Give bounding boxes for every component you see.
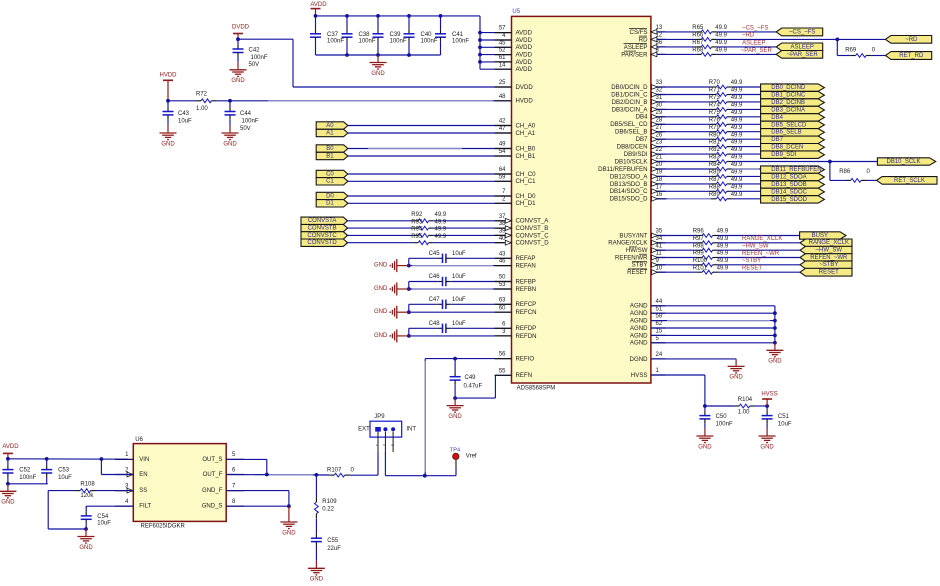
svg-text:EXT: EXT — [358, 426, 370, 432]
net label REFEN_~WR — [742, 251, 780, 257]
port flag CONVSTA — [301, 217, 348, 224]
svg-text:D1: D1 — [326, 201, 334, 207]
svg-text:AGND: AGND — [630, 340, 648, 347]
node DB10 junction — [828, 160, 832, 164]
svg-text:49.9: 49.9 — [731, 147, 743, 153]
svg-text:CH_C0: CH_C0 — [516, 171, 537, 178]
svg-text:C51: C51 — [778, 414, 790, 420]
svg-text:31: 31 — [656, 95, 663, 101]
svg-text:CONVST_D: CONVST_D — [516, 240, 550, 247]
svg-text:C53: C53 — [58, 468, 70, 474]
svg-text:AGND: AGND — [630, 303, 648, 310]
svg-text:CH_C1: CH_C1 — [516, 178, 537, 185]
resistor R65 49.9 — [651, 25, 728, 34]
wire AGND bus — [651, 306, 777, 345]
wire HVDD to U5 pin 48 — [216, 100, 511, 102]
svg-text:CH_A0: CH_A0 — [516, 122, 536, 129]
svg-text:62: 62 — [656, 321, 663, 327]
svg-text:R85: R85 — [709, 170, 721, 176]
wire B0 light segment — [368, 148, 462, 150]
svg-text:50V: 50V — [240, 126, 251, 132]
svg-text:20: 20 — [656, 162, 663, 168]
svg-text:DB9_SDI: DB9_SDI — [771, 152, 796, 158]
wire DVDD to U5 pin 25 — [238, 39, 512, 87]
svg-text:ASLEEP: ASLEEP — [624, 44, 648, 51]
svg-text:R97: R97 — [693, 236, 705, 242]
svg-text:DB8_DCEN: DB8_DCEN — [771, 145, 803, 151]
svg-text:C41: C41 — [452, 32, 464, 38]
svg-text:CONVSTC: CONVSTC — [307, 233, 337, 239]
wire to RESET flag — [718, 271, 801, 273]
svg-text:DB0_DCIND: DB0_DCIND — [771, 85, 806, 91]
svg-text:~CS_~FS: ~CS_~FS — [742, 25, 768, 31]
svg-text:10uF: 10uF — [452, 274, 466, 280]
wire C52-C53 bottom rail — [6, 482, 48, 486]
resistor R96 49.9 — [651, 229, 729, 238]
svg-text:DB10/SCLK: DB10/SCLK — [615, 158, 648, 165]
svg-text:R107: R107 — [327, 467, 342, 473]
svg-text:DB15_SDOD: DB15_SDOD — [771, 197, 807, 203]
svg-text:REFAN: REFAN — [516, 263, 536, 270]
net label ~RD — [742, 33, 755, 39]
svg-text:DB4: DB4 — [636, 114, 648, 121]
svg-text:HVDD: HVDD — [159, 73, 177, 79]
wire CONVSTA to U5 — [434, 220, 512, 222]
wire R86 to RET_SCLK flag — [866, 179, 877, 181]
ground GND (C51) — [759, 429, 776, 451]
wire to BUSY flag — [718, 235, 800, 237]
capacitor C47 10uF — [409, 297, 512, 309]
svg-text:63: 63 — [499, 297, 506, 303]
svg-text:C37: C37 — [327, 32, 339, 38]
svg-text:C48: C48 — [429, 321, 441, 327]
wire REF pair C47 — [407, 304, 512, 314]
svg-text:52: 52 — [499, 48, 506, 54]
wire HVDD light segment — [268, 100, 493, 102]
svg-text:U6: U6 — [135, 437, 143, 443]
resistor R70 49.9 — [651, 80, 743, 89]
svg-text:R79: R79 — [709, 125, 721, 131]
svg-text:AGND: AGND — [630, 325, 648, 332]
wire to DB14_SDOC flag — [732, 190, 761, 192]
svg-text:AVDD: AVDD — [516, 44, 533, 51]
U5 left pin numbers — [499, 26, 506, 375]
port flag B0 — [316, 145, 348, 152]
svg-text:26: 26 — [656, 132, 663, 138]
svg-text:DB14_SDOC: DB14_SDOC — [771, 189, 807, 195]
resistor R73 49.9 — [651, 95, 743, 104]
svg-text:AVDD: AVDD — [516, 59, 533, 66]
wire to DB5_SELCD flag — [732, 123, 761, 125]
U5 CONVST input arrows — [505, 218, 511, 245]
ground GND (REF C46) — [374, 283, 409, 296]
svg-text:BUSY/INT: BUSY/INT — [619, 232, 647, 239]
svg-text:100nF: 100nF — [390, 39, 407, 45]
svg-text:AVDD: AVDD — [516, 66, 533, 73]
resistor R101 49.9 — [651, 265, 729, 274]
svg-text:A0: A0 — [326, 123, 334, 129]
svg-text:AVDD: AVDD — [516, 52, 533, 59]
port flag D0 — [316, 192, 348, 199]
U5 left pin names — [516, 30, 550, 380]
svg-text:~RD: ~RD — [742, 33, 755, 39]
svg-text:CH_A1: CH_A1 — [516, 130, 536, 137]
svg-text:17: 17 — [656, 184, 663, 190]
capacitor C48 10uF — [409, 321, 512, 333]
svg-text:REFBN: REFBN — [516, 286, 537, 293]
svg-text:DB2/DCIN_B: DB2/DCIN_B — [612, 99, 648, 106]
svg-text:C46: C46 — [429, 274, 441, 280]
wire OUT_F to R107 — [226, 473, 329, 477]
svg-text:GND_F: GND_F — [202, 488, 223, 494]
svg-text:R70: R70 — [709, 80, 721, 86]
svg-text:RD: RD — [639, 36, 648, 43]
port flag C1 — [316, 178, 348, 185]
svg-text:DB9/SDI: DB9/SDI — [624, 151, 648, 158]
resistor R84 49.9 — [651, 162, 743, 171]
svg-text:49.9: 49.9 — [731, 103, 743, 109]
svg-text:GND: GND — [161, 141, 175, 147]
svg-text:C49: C49 — [465, 375, 477, 381]
port flag DB6_SELB — [761, 129, 825, 136]
svg-text:45: 45 — [499, 40, 506, 46]
svg-text:1.00: 1.00 — [738, 410, 750, 416]
svg-text:49.9: 49.9 — [731, 95, 743, 101]
port flag A1 — [316, 129, 348, 136]
svg-text:BUSY: BUSY — [812, 233, 828, 239]
resistor R99 49.9 — [651, 251, 729, 260]
svg-text:R109: R109 — [322, 499, 337, 505]
wire to DB11_REFBUFEN flag — [732, 168, 761, 170]
svg-text:49.9: 49.9 — [731, 162, 743, 168]
svg-text:10uF: 10uF — [452, 321, 466, 327]
wire REFN — [453, 375, 511, 400]
svg-text:47: 47 — [499, 126, 506, 132]
svg-text:HW/SW: HW/SW — [626, 247, 648, 254]
ground GND (C52) — [0, 484, 16, 506]
svg-text:FILT: FILT — [139, 504, 151, 510]
resistor R95 49.9 — [346, 234, 447, 245]
port flag BUSY — [800, 232, 846, 239]
capacitor C55 22uF — [311, 519, 341, 561]
svg-text:GND: GND — [310, 577, 324, 583]
svg-text:A1: A1 — [326, 130, 334, 136]
node HVDD junction — [166, 99, 170, 103]
svg-text:49.9: 49.9 — [715, 32, 727, 38]
ground GND (C55) — [308, 561, 325, 583]
svg-text:DGND: DGND — [630, 356, 649, 363]
svg-text:CONVST_A: CONVST_A — [516, 218, 550, 225]
svg-text:RANGE/XCLK: RANGE/XCLK — [608, 240, 647, 247]
wire to DB4 flag — [732, 116, 761, 118]
svg-text:51: 51 — [656, 306, 663, 312]
ground GND (C50) — [696, 429, 713, 451]
svg-text:GND: GND — [729, 375, 743, 381]
svg-text:AVDD: AVDD — [310, 2, 327, 8]
port flag DB7 — [761, 136, 825, 143]
port flag CONVSTB — [301, 224, 348, 231]
wire to DB8_DCEN flag — [732, 146, 761, 148]
wire B1 to U5 — [348, 155, 512, 157]
svg-text:GND: GND — [282, 530, 296, 536]
U5 pin stubs — [495, 32, 666, 375]
svg-text:REFEN_~WR: REFEN_~WR — [810, 255, 848, 261]
svg-text:10uF: 10uF — [452, 251, 466, 257]
svg-text:R72: R72 — [196, 92, 208, 98]
svg-text:STBY: STBY — [632, 262, 648, 269]
svg-text:GND: GND — [768, 359, 782, 365]
resistor R75 49.9 — [651, 110, 743, 119]
svg-text:DB13_SDOB: DB13_SDOB — [771, 182, 806, 188]
wire to DB6_SELB flag — [732, 131, 761, 133]
svg-text:100nF: 100nF — [359, 39, 376, 45]
wire R69 to RET_RD flag — [871, 55, 885, 57]
resistor R81 49.9 — [651, 140, 743, 149]
svg-text:ASLEEP: ASLEEP — [791, 44, 814, 50]
svg-text:GND: GND — [374, 263, 388, 269]
wire DGND — [651, 358, 736, 360]
capacitor C51 10uF — [762, 406, 792, 429]
svg-text:49.9: 49.9 — [717, 236, 729, 242]
resistor R67 49.9 — [651, 40, 728, 49]
resistor R88 49.9 — [651, 184, 743, 193]
svg-text:R68: R68 — [692, 47, 704, 53]
svg-text:1: 1 — [375, 444, 379, 446]
svg-text:U5: U5 — [512, 9, 520, 15]
wire DB11 light segment — [732, 168, 759, 170]
svg-text:REFCP: REFCP — [516, 301, 537, 308]
svg-text:10uF: 10uF — [97, 521, 111, 527]
resistor R109 0.22 — [315, 475, 338, 519]
port flag CONVSTD — [301, 239, 348, 246]
svg-text:49.9: 49.9 — [731, 88, 743, 94]
svg-text:10uF: 10uF — [778, 422, 792, 428]
svg-text:REFCN: REFCN — [516, 309, 537, 316]
svg-text:CONVSTB: CONVSTB — [308, 226, 337, 232]
port flag ~STBY — [800, 261, 852, 269]
svg-text:~PAR_SER: ~PAR_SER — [787, 52, 819, 58]
svg-text:100nF: 100nF — [242, 119, 259, 125]
svg-text:53: 53 — [499, 282, 506, 288]
capacitor C49 0.47uF — [450, 359, 483, 399]
wire to ~HW_SW flag — [718, 249, 801, 251]
capacitor C50 100nF — [699, 406, 733, 429]
wire EN to AVDD rail — [101, 459, 133, 475]
port flag RET_RD — [885, 52, 931, 60]
wire AVDD top rail — [314, 14, 480, 18]
ground GND (REF C45) — [374, 259, 409, 272]
wire D1 to U5 — [348, 202, 512, 204]
port flag DB13_SDOB — [761, 181, 825, 188]
U6 EN/SS input arrows — [127, 472, 133, 493]
svg-text:GND: GND — [79, 545, 93, 551]
net label ~PAR_SER — [741, 48, 773, 54]
ground GND (U6) — [280, 506, 297, 536]
wire to REFEN_~WR flag — [718, 257, 801, 259]
U5 right pin numbers — [656, 25, 663, 374]
capacitor C45 10uF — [409, 251, 512, 263]
U6 pin names — [139, 457, 222, 510]
svg-text:49.9: 49.9 — [435, 219, 447, 225]
wire ~RD branch down — [837, 39, 850, 55]
wire REFBN light segment — [412, 288, 493, 290]
svg-text:GND: GND — [760, 444, 774, 450]
svg-text:49.9: 49.9 — [731, 125, 743, 131]
svg-text:59: 59 — [499, 174, 506, 180]
svg-text:RET_SCLK: RET_SCLK — [894, 178, 925, 184]
svg-text:D0: D0 — [326, 193, 334, 199]
svg-text:DB4: DB4 — [771, 115, 783, 121]
svg-text:54: 54 — [499, 149, 506, 155]
svg-text:C55: C55 — [327, 538, 339, 544]
svg-text:0.47uF: 0.47uF — [464, 384, 483, 390]
svg-text:GND: GND — [374, 333, 388, 339]
svg-text:50: 50 — [499, 275, 506, 281]
resistor R94 49.9 — [346, 227, 447, 238]
svg-text:49.9: 49.9 — [715, 25, 727, 31]
svg-text:44: 44 — [656, 299, 663, 305]
wire DB10 branch down — [830, 162, 846, 181]
svg-text:56: 56 — [499, 352, 506, 358]
ground GND (AGND) — [766, 343, 783, 365]
svg-text:CONVST_B: CONVST_B — [516, 225, 549, 232]
svg-text:R104: R104 — [738, 397, 753, 403]
svg-text:R88: R88 — [709, 184, 721, 190]
port flag C0 — [316, 170, 348, 177]
svg-text:32: 32 — [656, 88, 663, 94]
svg-text:1.00: 1.00 — [196, 106, 208, 112]
svg-text:GND: GND — [371, 71, 385, 77]
svg-text:49.9: 49.9 — [435, 227, 447, 233]
svg-text:~PAR_SER: ~PAR_SER — [741, 48, 773, 54]
svg-text:29: 29 — [656, 110, 663, 116]
svg-text:AVDD: AVDD — [516, 37, 533, 44]
svg-text:41: 41 — [656, 243, 663, 249]
svg-text:19: 19 — [656, 170, 663, 176]
wire C0 to U5 — [348, 173, 512, 175]
svg-text:49.9: 49.9 — [731, 80, 743, 86]
port flag RESET — [800, 268, 852, 276]
wire A0 to U5 — [348, 125, 512, 127]
port flag DB2_DCINB — [761, 99, 825, 106]
svg-text:DB12_SDOA: DB12_SDOA — [771, 174, 806, 180]
resistor R82 49.9 — [651, 147, 743, 156]
wire GND_F — [226, 491, 289, 507]
svg-text:B0: B0 — [326, 146, 334, 152]
svg-text:CH_B0: CH_B0 — [516, 145, 536, 152]
power AVDD (top cap bank) — [310, 2, 327, 16]
wire DB10_SCLK — [732, 161, 878, 163]
svg-text:C50: C50 — [716, 414, 728, 420]
wire to DB9_SDI flag — [732, 153, 761, 155]
wire OUT_S — [226, 459, 268, 476]
svg-text:49.9: 49.9 — [731, 177, 743, 183]
port flag RANGE_XCLK — [800, 239, 852, 247]
wire AVDD bus to U5 pins — [478, 16, 511, 69]
svg-text:R86: R86 — [839, 169, 851, 175]
svg-text:49.9: 49.9 — [731, 170, 743, 176]
svg-text:49.9: 49.9 — [731, 192, 743, 198]
svg-text:R94: R94 — [411, 227, 423, 233]
svg-text:2: 2 — [383, 444, 387, 446]
svg-text:Vref: Vref — [466, 454, 477, 460]
svg-text:15: 15 — [656, 329, 663, 335]
svg-text:60: 60 — [499, 305, 506, 311]
svg-text:DVDD: DVDD — [516, 84, 534, 91]
ground GND (C43) — [160, 126, 177, 148]
svg-text:49.9: 49.9 — [435, 212, 447, 218]
wire B0 to U5 — [348, 148, 512, 150]
resistor R92 49.9 — [346, 212, 447, 223]
wire AVDD bank bottom rail — [316, 53, 441, 57]
svg-text:DVDD: DVDD — [232, 25, 250, 31]
ground GND (REF C48) — [374, 329, 409, 342]
svg-text:SS: SS — [139, 488, 147, 494]
svg-text:TP4: TP4 — [450, 447, 460, 453]
svg-text:REFEN/WR: REFEN/WR — [615, 254, 648, 261]
svg-text:C0: C0 — [326, 171, 334, 177]
svg-text:REFAP: REFAP — [516, 255, 536, 262]
port flag RET_SCLK — [877, 177, 937, 185]
svg-text:C1: C1 — [326, 179, 334, 185]
svg-text:GND: GND — [223, 141, 237, 147]
port flag DB5_SELCD — [761, 121, 825, 128]
svg-text:46: 46 — [499, 259, 506, 265]
resistor R87 49.9 — [651, 177, 743, 186]
port flag B1 — [316, 152, 348, 159]
svg-text:REFBP: REFBP — [516, 278, 536, 285]
svg-text:R67: R67 — [692, 40, 704, 46]
wire C1 to U5 — [348, 180, 512, 182]
port flag DB3_DCINA — [761, 106, 825, 113]
svg-text:R92: R92 — [411, 212, 423, 218]
svg-text:43: 43 — [499, 251, 506, 257]
port flag DB14_SDOC — [761, 188, 825, 195]
svg-text:10uF: 10uF — [58, 475, 72, 481]
net label RESET — [742, 266, 762, 272]
capacitor C43 10uF — [163, 101, 193, 126]
svg-text:RESET: RESET — [819, 270, 839, 276]
svg-text:VIN: VIN — [139, 457, 149, 463]
IC U6 REF6025IDGKR body — [133, 437, 226, 530]
wire HVSS to R104 — [651, 375, 707, 408]
svg-text:HVSS: HVSS — [631, 372, 648, 379]
svg-text:R100: R100 — [693, 258, 708, 264]
svg-text:AGND: AGND — [630, 332, 648, 339]
wire R108 to GND node — [48, 491, 86, 529]
svg-text:DB6_SELB: DB6_SELB — [771, 130, 801, 136]
svg-text:~HW_SW: ~HW_SW — [816, 248, 843, 254]
svg-text:R82: R82 — [709, 147, 721, 153]
svg-text:~RD: ~RD — [905, 37, 918, 43]
node DVDD junction — [236, 37, 240, 41]
resistor R86 0 — [839, 169, 870, 183]
port flag A0 — [316, 122, 348, 129]
svg-text:R69: R69 — [845, 47, 857, 53]
wire CONVSTC to U5 — [434, 234, 512, 236]
resistor R79 49.9 — [651, 125, 743, 134]
wire to DB13_SDOB flag — [732, 183, 761, 185]
wire REFAN light segment — [412, 265, 493, 267]
svg-text:55: 55 — [499, 368, 506, 374]
wire to ASLEEP flag — [717, 46, 777, 48]
svg-text:OUT_F: OUT_F — [203, 472, 223, 478]
svg-text:16: 16 — [656, 192, 663, 198]
svg-text:GND_S: GND_S — [202, 504, 223, 510]
wire R107 to JP9 pin1 — [350, 452, 378, 475]
svg-text:RESET: RESET — [627, 269, 648, 276]
svg-text:23: 23 — [656, 140, 663, 146]
